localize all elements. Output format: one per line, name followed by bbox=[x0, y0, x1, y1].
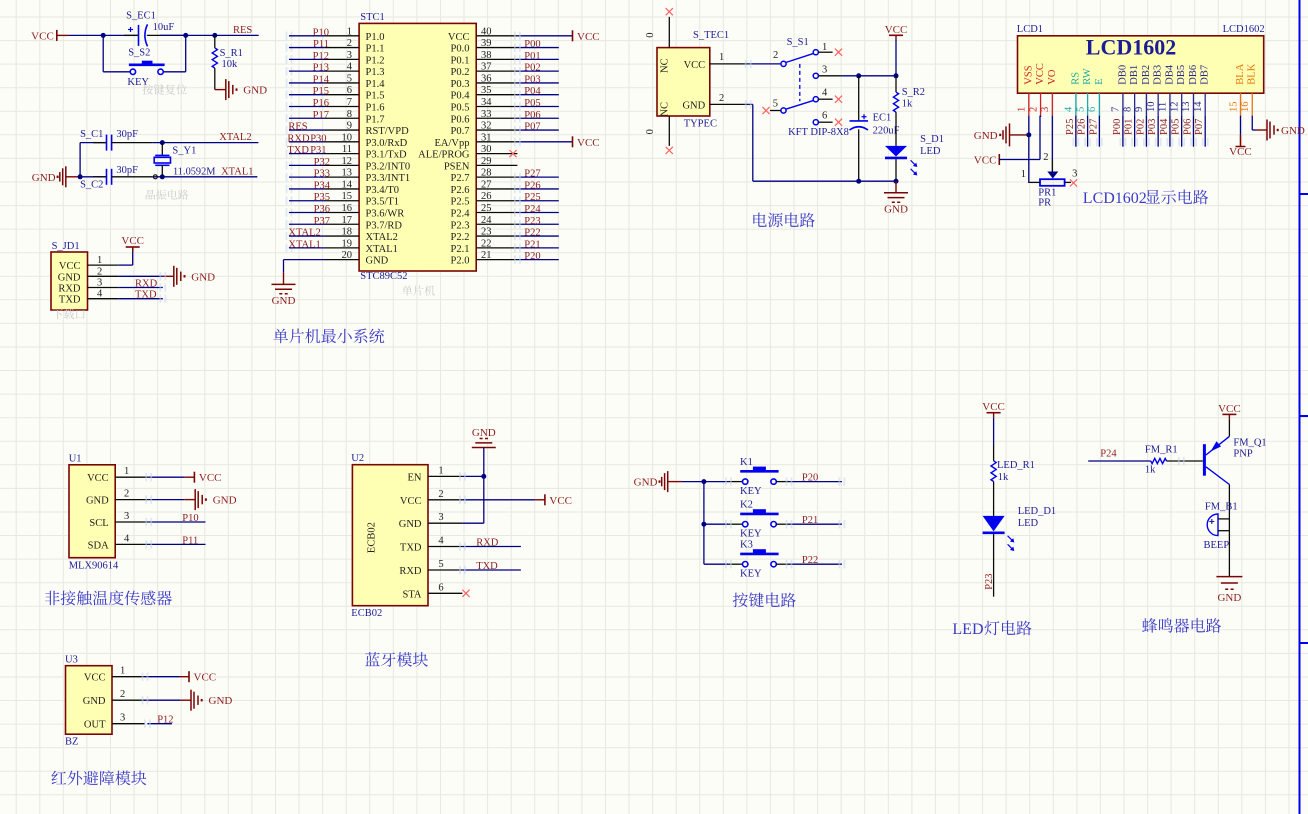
svg-text:P0.7: P0.7 bbox=[451, 126, 470, 137]
svg-text:S_C2: S_C2 bbox=[80, 180, 103, 191]
svg-text:P34: P34 bbox=[314, 180, 331, 191]
svg-text:XTAL1: XTAL1 bbox=[221, 167, 253, 178]
svg-text:LED: LED bbox=[920, 146, 941, 157]
svg-text:U3: U3 bbox=[65, 654, 78, 665]
svg-text:P2.7: P2.7 bbox=[451, 173, 470, 184]
svg-text:P0.6: P0.6 bbox=[451, 114, 470, 125]
svg-text:2: 2 bbox=[773, 50, 778, 61]
svg-text:P10: P10 bbox=[182, 513, 198, 524]
svg-text:P25: P25 bbox=[1065, 119, 1076, 135]
svg-text:VCC: VCC bbox=[1229, 146, 1252, 158]
svg-text:1k: 1k bbox=[998, 472, 1009, 483]
svg-text:20: 20 bbox=[342, 250, 353, 261]
svg-text:P0.4: P0.4 bbox=[451, 91, 471, 102]
svg-text:4: 4 bbox=[822, 88, 828, 99]
svg-text:K3: K3 bbox=[740, 540, 753, 551]
svg-text:PSEN: PSEN bbox=[444, 161, 470, 172]
svg-text:P0.2: P0.2 bbox=[451, 67, 470, 78]
svg-text:4: 4 bbox=[124, 533, 130, 544]
svg-text:DB7: DB7 bbox=[1200, 65, 1211, 85]
svg-text:GND: GND bbox=[974, 130, 998, 142]
svg-text:RS: RS bbox=[1070, 72, 1081, 85]
svg-text:P2.3: P2.3 bbox=[451, 220, 470, 231]
svg-text:P0.5: P0.5 bbox=[451, 102, 470, 113]
svg-text:LCD1602: LCD1602 bbox=[1086, 35, 1176, 60]
svg-text:13: 13 bbox=[342, 168, 353, 179]
svg-text:15: 15 bbox=[1228, 102, 1239, 113]
svg-text:18: 18 bbox=[342, 227, 353, 238]
svg-text:35: 35 bbox=[481, 85, 492, 96]
svg-text:RXD: RXD bbox=[58, 284, 81, 295]
svg-text:10: 10 bbox=[342, 132, 353, 143]
svg-text:VSS: VSS bbox=[1023, 65, 1034, 84]
svg-text:STC1: STC1 bbox=[360, 12, 385, 23]
svg-text:XTAL1: XTAL1 bbox=[366, 244, 398, 255]
svg-text:3: 3 bbox=[1040, 107, 1051, 112]
svg-text:1: 1 bbox=[438, 465, 443, 476]
svg-text:10k: 10k bbox=[222, 59, 239, 70]
svg-text:P1.4: P1.4 bbox=[366, 79, 386, 90]
svg-text:7: 7 bbox=[1111, 107, 1122, 112]
svg-text:TYPEC: TYPEC bbox=[684, 119, 717, 130]
svg-text:P2.5: P2.5 bbox=[451, 197, 470, 208]
svg-text:5: 5 bbox=[347, 73, 352, 84]
svg-text:VCC: VCC bbox=[577, 31, 600, 43]
svg-text:P35: P35 bbox=[314, 192, 330, 203]
svg-text:VCC: VCC bbox=[84, 673, 106, 684]
svg-text:39: 39 bbox=[481, 38, 492, 49]
svg-text:8: 8 bbox=[347, 109, 352, 120]
svg-text:ALE/PROG: ALE/PROG bbox=[418, 150, 470, 161]
svg-text:P12: P12 bbox=[313, 51, 329, 62]
svg-text:P04: P04 bbox=[1159, 118, 1170, 135]
svg-text:P26: P26 bbox=[1077, 119, 1088, 135]
svg-text:VCC: VCC bbox=[577, 137, 600, 149]
svg-text:S_C1: S_C1 bbox=[80, 129, 103, 140]
svg-text:22: 22 bbox=[481, 238, 492, 249]
svg-text:P05: P05 bbox=[524, 98, 540, 109]
svg-text:1: 1 bbox=[1021, 169, 1026, 180]
svg-text:VCC: VCC bbox=[1218, 403, 1241, 415]
svg-text:27: 27 bbox=[481, 179, 492, 190]
svg-text:37: 37 bbox=[481, 62, 492, 73]
svg-text:U2: U2 bbox=[351, 453, 364, 464]
svg-text:1: 1 bbox=[822, 42, 827, 53]
svg-text:1k: 1k bbox=[1145, 465, 1156, 476]
svg-text:VCC: VCC bbox=[974, 155, 997, 167]
svg-text:P1.1: P1.1 bbox=[366, 44, 385, 55]
svg-text:E: E bbox=[1094, 78, 1105, 84]
svg-text:6: 6 bbox=[347, 85, 352, 96]
svg-text:LED: LED bbox=[952, 621, 983, 638]
svg-text:19: 19 bbox=[342, 238, 353, 249]
svg-text:3: 3 bbox=[822, 65, 827, 76]
svg-text:7: 7 bbox=[347, 97, 352, 108]
svg-text:VCC: VCC bbox=[1035, 63, 1046, 85]
svg-text:P20: P20 bbox=[524, 251, 540, 262]
svg-text:P36: P36 bbox=[314, 204, 330, 215]
svg-text:TXD: TXD bbox=[135, 290, 157, 301]
svg-text:DB0: DB0 bbox=[1117, 65, 1128, 85]
svg-text:GND: GND bbox=[1281, 125, 1305, 137]
svg-text:10uF: 10uF bbox=[153, 22, 175, 33]
svg-text:BEEP: BEEP bbox=[1204, 540, 1230, 551]
svg-text:6: 6 bbox=[1087, 107, 1098, 112]
svg-text:P05: P05 bbox=[1171, 119, 1182, 135]
svg-text:S_S1: S_S1 bbox=[787, 37, 809, 48]
svg-text:P24: P24 bbox=[1100, 449, 1117, 460]
svg-text:BLK: BLK bbox=[1247, 63, 1258, 84]
svg-text:P3.7/RD: P3.7/RD bbox=[366, 220, 403, 231]
svg-text:DB2: DB2 bbox=[1141, 65, 1152, 85]
svg-text:GND: GND bbox=[634, 477, 658, 489]
svg-text:VCC: VCC bbox=[31, 30, 54, 42]
svg-text:1: 1 bbox=[120, 666, 125, 677]
svg-text:ECB02: ECB02 bbox=[351, 608, 382, 619]
svg-text:P1.3: P1.3 bbox=[366, 67, 385, 78]
svg-text:29: 29 bbox=[481, 156, 492, 167]
svg-text:P37: P37 bbox=[314, 216, 330, 227]
svg-text:1: 1 bbox=[124, 466, 129, 477]
svg-text:GND: GND bbox=[32, 172, 56, 184]
svg-text:S_D1: S_D1 bbox=[920, 134, 944, 145]
svg-text:30pF: 30pF bbox=[116, 129, 138, 140]
svg-text:DB3: DB3 bbox=[1153, 65, 1164, 85]
svg-text:P12: P12 bbox=[157, 715, 173, 726]
svg-text:P2.6: P2.6 bbox=[451, 185, 470, 196]
svg-text:GND: GND bbox=[213, 495, 237, 507]
svg-text:P2.2: P2.2 bbox=[451, 232, 470, 243]
svg-text:14: 14 bbox=[1193, 101, 1204, 112]
svg-text:2: 2 bbox=[438, 489, 443, 500]
svg-text:P3.3/INT1: P3.3/INT1 bbox=[366, 173, 411, 184]
svg-text:GND: GND bbox=[399, 519, 422, 530]
svg-text:21: 21 bbox=[481, 250, 492, 261]
svg-text:11: 11 bbox=[1158, 102, 1169, 112]
svg-text:LED_R1: LED_R1 bbox=[997, 460, 1035, 471]
svg-text:VCC: VCC bbox=[121, 235, 144, 247]
svg-text:2: 2 bbox=[124, 489, 129, 500]
svg-text:P0.1: P0.1 bbox=[451, 55, 470, 66]
svg-text:LCD1602: LCD1602 bbox=[1223, 24, 1265, 35]
svg-text:GND: GND bbox=[209, 695, 233, 707]
svg-text:TXD: TXD bbox=[400, 543, 422, 554]
svg-text:3: 3 bbox=[97, 278, 102, 289]
svg-text:P1.2: P1.2 bbox=[366, 55, 385, 66]
svg-text:BZ: BZ bbox=[65, 737, 78, 748]
svg-text:33: 33 bbox=[481, 109, 492, 120]
svg-text:2: 2 bbox=[120, 689, 125, 700]
svg-text:P15: P15 bbox=[313, 86, 329, 97]
svg-text:P04: P04 bbox=[524, 86, 541, 97]
svg-text:STA: STA bbox=[403, 589, 422, 600]
svg-text:P3.5/T1: P3.5/T1 bbox=[366, 197, 400, 208]
svg-text:RES: RES bbox=[233, 25, 252, 36]
svg-text:GND: GND bbox=[472, 427, 496, 439]
svg-text:VCC: VCC bbox=[199, 472, 222, 484]
svg-text:6: 6 bbox=[822, 111, 827, 122]
svg-text:DB1: DB1 bbox=[1129, 65, 1140, 85]
svg-text:PR: PR bbox=[1038, 198, 1051, 209]
svg-text:XTAL2: XTAL2 bbox=[288, 228, 320, 239]
svg-text:FM_B1: FM_B1 bbox=[1205, 502, 1238, 513]
svg-text:GND: GND bbox=[243, 85, 267, 97]
svg-text:P30: P30 bbox=[310, 133, 326, 144]
svg-text:38: 38 bbox=[481, 50, 492, 61]
svg-text:NC: NC bbox=[660, 58, 671, 73]
svg-text:5: 5 bbox=[773, 99, 778, 110]
svg-text:3: 3 bbox=[347, 50, 352, 61]
svg-text:P03: P03 bbox=[524, 74, 540, 85]
svg-text:P01: P01 bbox=[1124, 119, 1135, 135]
svg-text:LCD1: LCD1 bbox=[1017, 24, 1043, 35]
svg-text:3: 3 bbox=[120, 713, 125, 724]
svg-text:0: 0 bbox=[645, 129, 656, 134]
svg-text:KEY: KEY bbox=[740, 569, 762, 580]
svg-text:FM_R1: FM_R1 bbox=[1145, 445, 1178, 456]
svg-text:P23: P23 bbox=[524, 216, 540, 227]
svg-text:P3.6/WR: P3.6/WR bbox=[366, 209, 405, 220]
svg-text:TXD: TXD bbox=[287, 145, 309, 156]
svg-text:GND: GND bbox=[58, 272, 81, 283]
svg-text:40: 40 bbox=[481, 26, 492, 37]
svg-text:RXD: RXD bbox=[135, 279, 158, 290]
svg-text:P07: P07 bbox=[524, 122, 540, 133]
svg-text:P1.7: P1.7 bbox=[366, 114, 385, 125]
svg-text:2: 2 bbox=[1028, 107, 1039, 112]
svg-text:EC1: EC1 bbox=[873, 112, 892, 123]
svg-text:P11: P11 bbox=[182, 535, 198, 546]
svg-text:14: 14 bbox=[342, 179, 353, 190]
svg-text:P22: P22 bbox=[802, 555, 818, 566]
svg-text:FM_Q1: FM_Q1 bbox=[1233, 438, 1266, 449]
svg-text:VO: VO bbox=[1047, 69, 1058, 85]
svg-text:EN: EN bbox=[408, 472, 422, 483]
svg-text:KEY: KEY bbox=[127, 77, 149, 88]
svg-text:26: 26 bbox=[481, 191, 492, 202]
svg-text:P1.5: P1.5 bbox=[366, 91, 385, 102]
svg-text:P21: P21 bbox=[524, 239, 540, 250]
svg-text:16: 16 bbox=[1240, 102, 1251, 113]
svg-text:VCC: VCC bbox=[885, 24, 908, 36]
svg-text:1: 1 bbox=[719, 52, 724, 63]
svg-text:MLX90614: MLX90614 bbox=[69, 561, 119, 572]
svg-text:GND: GND bbox=[83, 696, 106, 707]
svg-text:SCL: SCL bbox=[89, 518, 108, 529]
svg-text:DB6: DB6 bbox=[1188, 65, 1199, 85]
svg-text:P11: P11 bbox=[313, 39, 329, 50]
svg-text:30pF: 30pF bbox=[116, 165, 138, 176]
svg-text:4: 4 bbox=[438, 536, 444, 547]
svg-text:RW: RW bbox=[1082, 68, 1093, 84]
svg-text:GND: GND bbox=[682, 100, 705, 111]
svg-text:LED: LED bbox=[1018, 518, 1039, 529]
svg-text:3: 3 bbox=[1072, 169, 1077, 180]
svg-text:NC: NC bbox=[660, 102, 671, 117]
svg-text:28: 28 bbox=[481, 168, 492, 179]
svg-text:1k: 1k bbox=[902, 98, 913, 109]
svg-text:VCC: VCC bbox=[400, 496, 422, 507]
svg-text:RXD: RXD bbox=[287, 133, 310, 144]
svg-text:11.0592M: 11.0592M bbox=[173, 167, 216, 178]
svg-text:P02: P02 bbox=[524, 63, 540, 74]
svg-text:P23: P23 bbox=[984, 573, 995, 589]
svg-text:5: 5 bbox=[1075, 107, 1086, 112]
svg-text:2: 2 bbox=[97, 266, 102, 277]
svg-text:S_JD1: S_JD1 bbox=[52, 241, 80, 252]
svg-text:24: 24 bbox=[481, 215, 492, 226]
svg-text:VCC: VCC bbox=[982, 401, 1005, 413]
svg-text:K1: K1 bbox=[740, 457, 753, 468]
svg-text:17: 17 bbox=[342, 215, 353, 226]
svg-text:RST/VPD: RST/VPD bbox=[366, 126, 410, 137]
svg-text:VCC: VCC bbox=[59, 261, 81, 272]
svg-text:P1.6: P1.6 bbox=[366, 102, 385, 113]
svg-text:3: 3 bbox=[124, 511, 129, 522]
svg-text:OUT: OUT bbox=[84, 720, 106, 731]
svg-text:P00: P00 bbox=[1112, 119, 1123, 135]
svg-text:P26: P26 bbox=[524, 180, 540, 191]
svg-text:P13: P13 bbox=[313, 63, 329, 74]
svg-text:PNP: PNP bbox=[1233, 449, 1252, 460]
svg-text:S_TEC1: S_TEC1 bbox=[693, 30, 729, 41]
svg-text:12: 12 bbox=[342, 156, 353, 167]
svg-text:P32: P32 bbox=[314, 157, 330, 168]
svg-text:P17: P17 bbox=[313, 110, 329, 121]
svg-text:P27: P27 bbox=[524, 169, 540, 180]
svg-text:S_EC1: S_EC1 bbox=[126, 11, 156, 22]
svg-text:U1: U1 bbox=[69, 454, 82, 465]
svg-text:P3.4/T0: P3.4/T0 bbox=[366, 185, 400, 196]
svg-text:12: 12 bbox=[1169, 102, 1180, 113]
svg-text:P2.0: P2.0 bbox=[451, 256, 470, 267]
svg-text:P25: P25 bbox=[524, 192, 540, 203]
svg-text:P2.4: P2.4 bbox=[451, 209, 471, 220]
svg-text:10: 10 bbox=[1146, 102, 1157, 113]
svg-text:VCC: VCC bbox=[87, 473, 109, 484]
svg-text:3: 3 bbox=[438, 512, 443, 523]
svg-text:LCD1602: LCD1602 bbox=[1083, 190, 1147, 207]
svg-text:DB5: DB5 bbox=[1176, 65, 1187, 85]
svg-text:31: 31 bbox=[481, 132, 492, 143]
svg-text:P16: P16 bbox=[313, 98, 329, 109]
svg-text:4: 4 bbox=[347, 62, 353, 73]
svg-text:P2.1: P2.1 bbox=[451, 244, 470, 255]
svg-text:16: 16 bbox=[342, 203, 353, 214]
svg-text:XTAL2: XTAL2 bbox=[219, 132, 251, 143]
svg-text:0: 0 bbox=[645, 32, 656, 37]
svg-text:5: 5 bbox=[438, 559, 443, 570]
svg-text:EA/Vpp: EA/Vpp bbox=[435, 138, 470, 149]
svg-text:6: 6 bbox=[438, 582, 443, 593]
svg-text:ECB02: ECB02 bbox=[367, 522, 378, 553]
svg-text:32: 32 bbox=[481, 121, 492, 132]
svg-text:RXD: RXD bbox=[476, 537, 499, 548]
svg-text:30: 30 bbox=[481, 144, 492, 155]
svg-text:2: 2 bbox=[1043, 152, 1048, 163]
svg-text:P3.1/TxD: P3.1/TxD bbox=[366, 150, 408, 161]
svg-text:DB4: DB4 bbox=[1164, 64, 1175, 85]
svg-text:P27: P27 bbox=[1088, 119, 1099, 135]
svg-text:VCC: VCC bbox=[194, 672, 217, 684]
svg-text:GND: GND bbox=[366, 256, 389, 267]
svg-text:1: 1 bbox=[347, 26, 352, 37]
svg-text:P00: P00 bbox=[524, 39, 540, 50]
svg-text:11: 11 bbox=[342, 144, 352, 155]
svg-text:S_R2: S_R2 bbox=[902, 87, 925, 98]
svg-text:P02: P02 bbox=[1135, 119, 1146, 135]
svg-text:P1.0: P1.0 bbox=[366, 32, 385, 43]
svg-text:P06: P06 bbox=[1182, 119, 1193, 135]
svg-text:GND: GND bbox=[86, 496, 109, 507]
svg-text:34: 34 bbox=[481, 97, 492, 108]
svg-text:9: 9 bbox=[347, 121, 352, 132]
svg-text:P3.2/INT0: P3.2/INT0 bbox=[366, 161, 411, 172]
svg-text:GND: GND bbox=[191, 271, 215, 283]
svg-text:15: 15 bbox=[342, 191, 353, 202]
svg-text:VCC: VCC bbox=[684, 60, 706, 71]
svg-text:P3.0/RxD: P3.0/RxD bbox=[366, 138, 408, 149]
svg-text:8: 8 bbox=[1122, 107, 1133, 112]
svg-text:XTAL2: XTAL2 bbox=[366, 232, 398, 243]
svg-text:TXD: TXD bbox=[476, 561, 498, 572]
svg-text:RES: RES bbox=[288, 122, 307, 133]
svg-text:P03: P03 bbox=[1147, 119, 1158, 135]
svg-text:P33: P33 bbox=[314, 169, 330, 180]
svg-text:K2: K2 bbox=[740, 500, 753, 511]
svg-text:VCC: VCC bbox=[448, 32, 470, 43]
svg-text:P06: P06 bbox=[524, 110, 540, 121]
svg-text:GND: GND bbox=[272, 295, 296, 307]
svg-text:LED_D1: LED_D1 bbox=[1018, 506, 1056, 517]
svg-text:SDA: SDA bbox=[88, 540, 109, 551]
svg-text:4: 4 bbox=[97, 289, 103, 300]
svg-text:TXD: TXD bbox=[59, 295, 81, 306]
svg-text:KFT DIP-8X8: KFT DIP-8X8 bbox=[788, 127, 849, 138]
svg-text:KEY: KEY bbox=[740, 529, 762, 540]
svg-text:P31: P31 bbox=[310, 145, 326, 156]
svg-text:S_R1: S_R1 bbox=[220, 48, 243, 59]
svg-text:P0.0: P0.0 bbox=[451, 44, 470, 55]
svg-text:P20: P20 bbox=[802, 473, 818, 484]
svg-text:KEY: KEY bbox=[740, 486, 762, 497]
svg-text:25: 25 bbox=[481, 203, 492, 214]
svg-text:XTAL1: XTAL1 bbox=[288, 239, 320, 250]
svg-text:P01: P01 bbox=[524, 51, 540, 62]
svg-text:S_Y1: S_Y1 bbox=[172, 145, 196, 156]
svg-text:1: 1 bbox=[97, 255, 102, 266]
svg-text:2: 2 bbox=[347, 38, 352, 49]
svg-text:1: 1 bbox=[1017, 107, 1028, 112]
svg-text:P07: P07 bbox=[1194, 119, 1205, 135]
svg-text:4: 4 bbox=[1064, 106, 1075, 112]
svg-text:P21: P21 bbox=[802, 515, 818, 526]
svg-text:23: 23 bbox=[481, 227, 492, 238]
svg-text:RXD: RXD bbox=[399, 566, 422, 577]
svg-text:GND: GND bbox=[1217, 592, 1241, 604]
svg-text:36: 36 bbox=[481, 73, 492, 84]
svg-text:2: 2 bbox=[719, 93, 724, 104]
svg-text:13: 13 bbox=[1181, 102, 1192, 113]
svg-text:P14: P14 bbox=[313, 74, 330, 85]
svg-text:P22: P22 bbox=[524, 228, 540, 239]
svg-text:P24: P24 bbox=[524, 204, 541, 215]
svg-text:S_S2: S_S2 bbox=[128, 48, 150, 59]
svg-text:P10: P10 bbox=[313, 27, 329, 38]
svg-text:9: 9 bbox=[1134, 107, 1145, 112]
svg-text:P0.3: P0.3 bbox=[451, 79, 470, 90]
svg-text:STC89C52: STC89C52 bbox=[360, 271, 407, 282]
